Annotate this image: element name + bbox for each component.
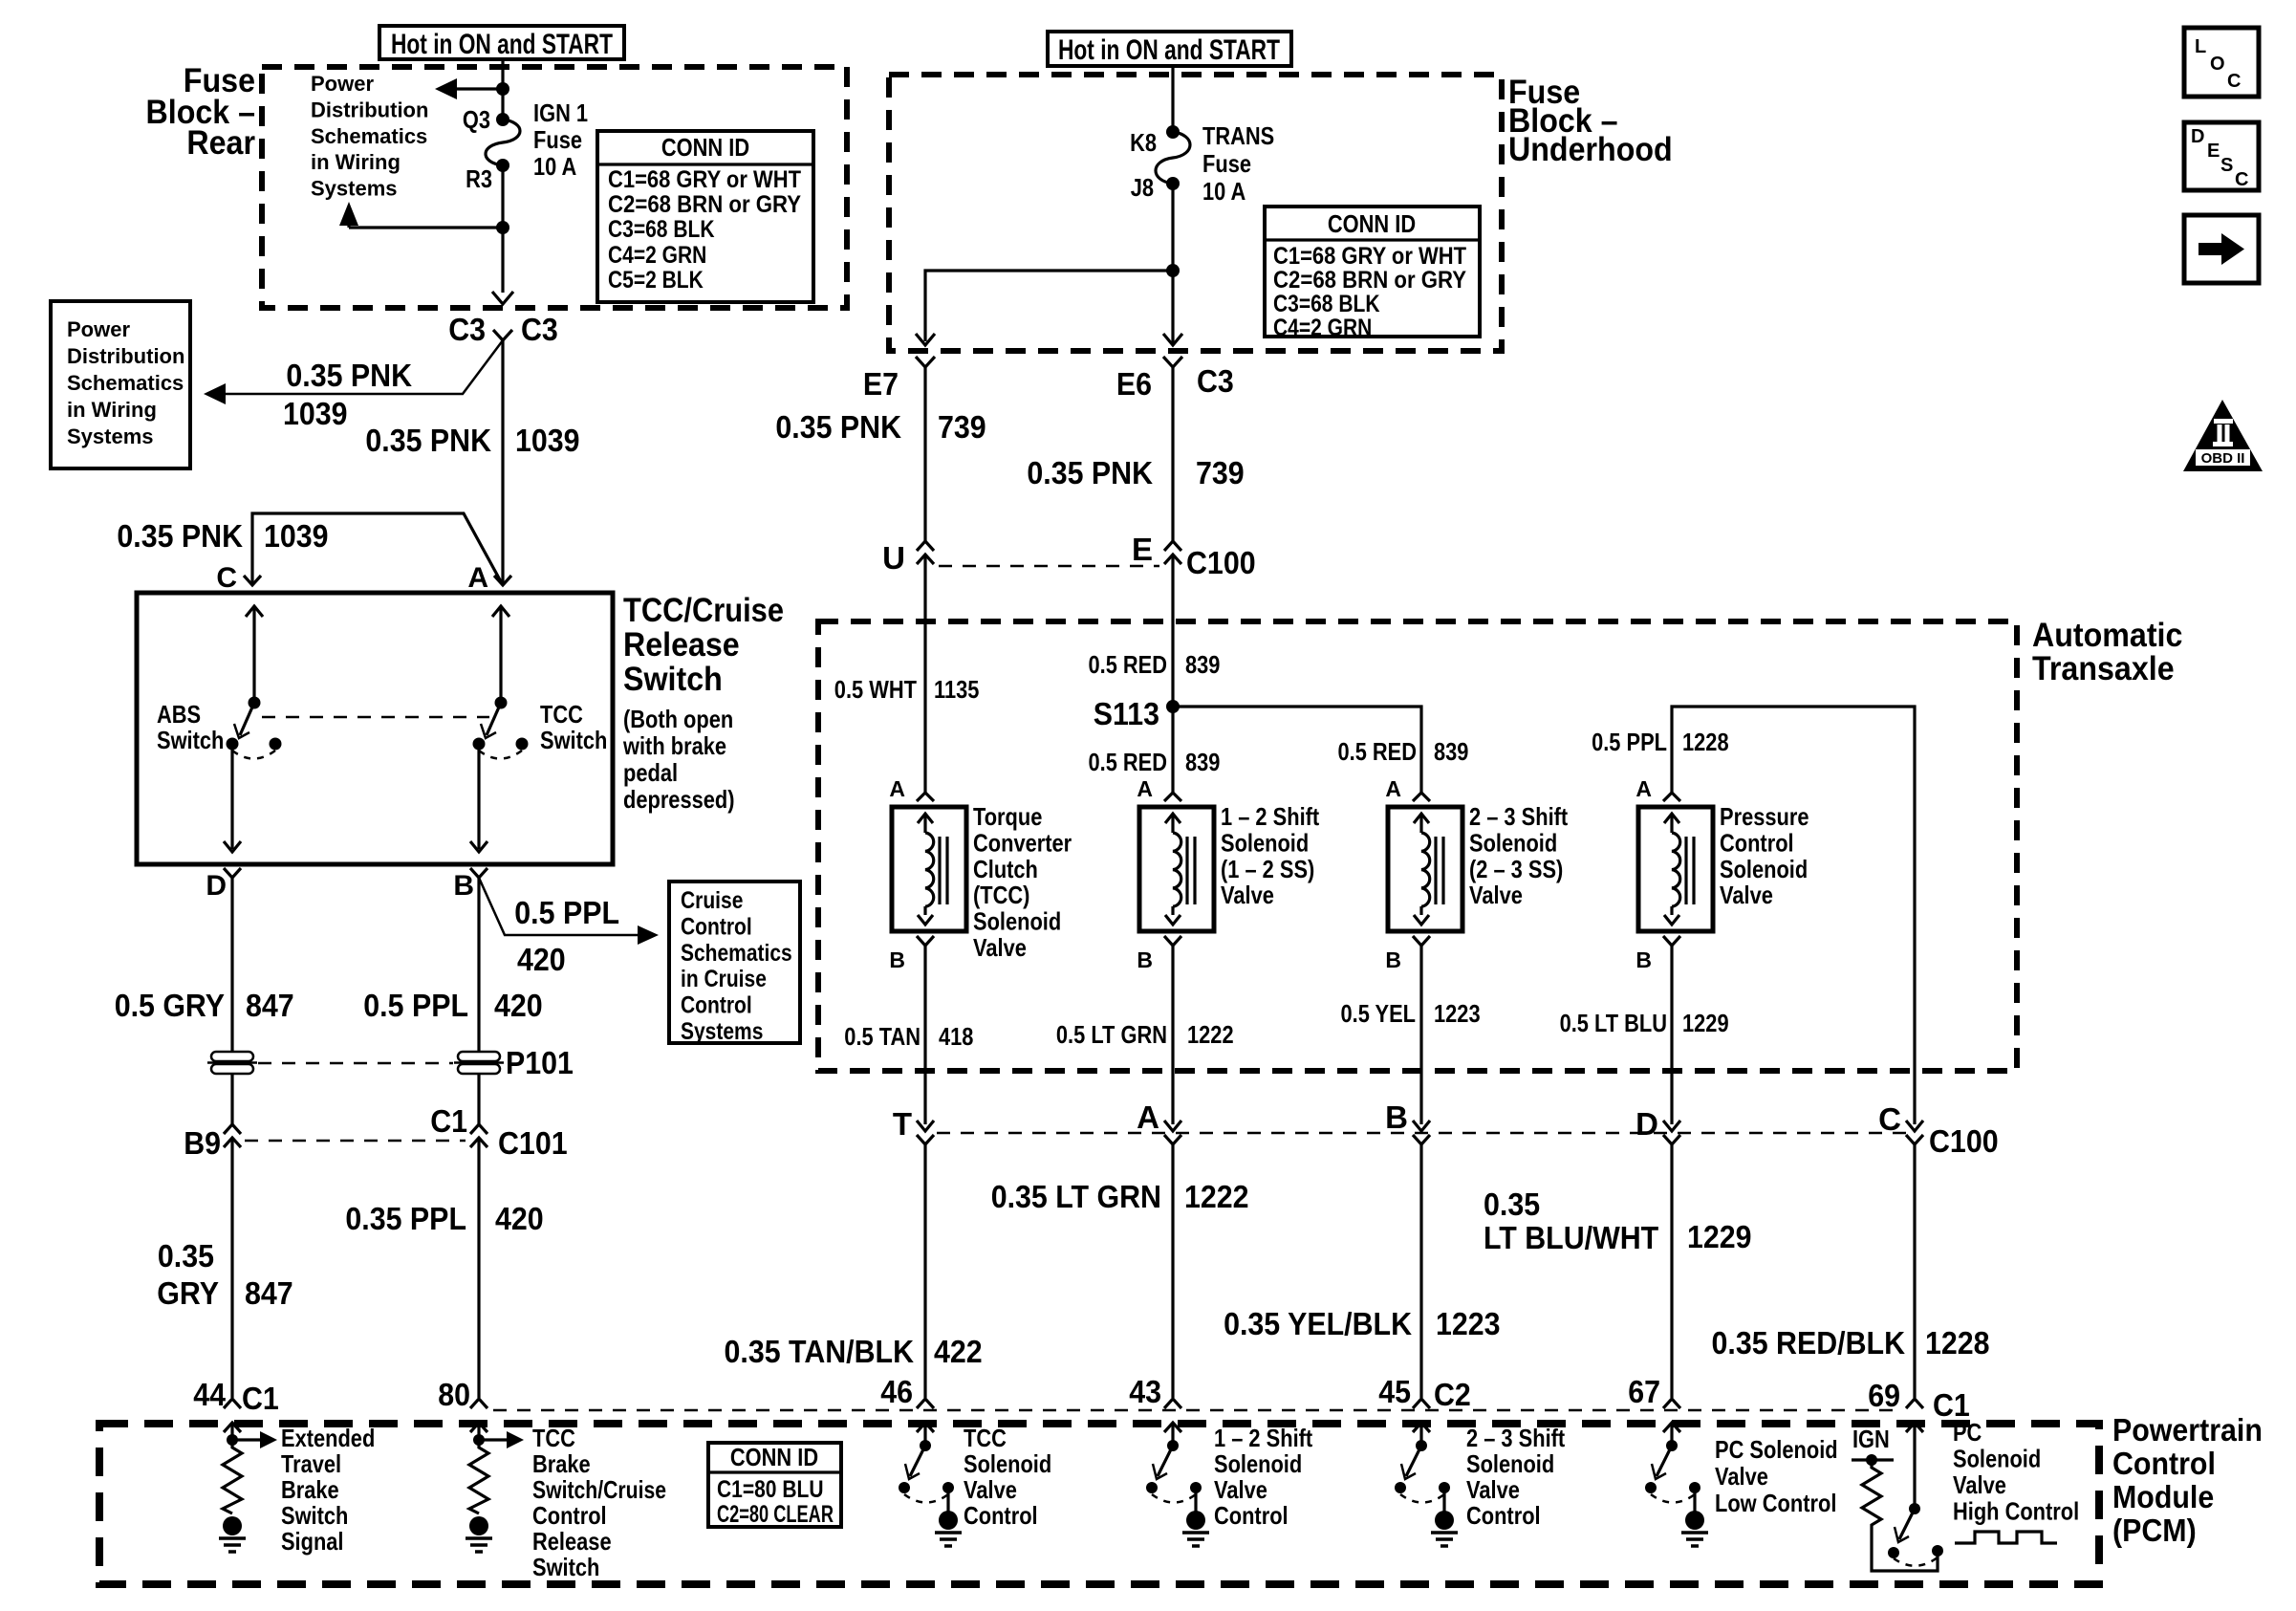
signal tap arrow — [232, 1438, 261, 1441]
svg-text:847: 847 — [245, 1275, 293, 1311]
svg-text:Powertrain: Powertrain — [2112, 1412, 2263, 1448]
switch blade — [1406, 1446, 1421, 1476]
svg-text:C100: C100 — [1929, 1123, 1999, 1159]
ground stem — [1194, 1488, 1197, 1513]
PWM square wave symbol — [1955, 1532, 2057, 1543]
svg-text:Low Control: Low Control — [1715, 1489, 1836, 1517]
svg-text:Schematics: Schematics — [311, 124, 427, 148]
svg-text:(1 – 2 SS): (1 – 2 SS) — [1221, 855, 1314, 883]
svg-text:67: 67 — [1628, 1374, 1660, 1409]
solenoid 1-2 shift — [1139, 807, 1214, 931]
svg-text:Release: Release — [623, 626, 740, 664]
svg-text:418: 418 — [939, 1022, 973, 1051]
svg-text:Release: Release — [532, 1527, 612, 1556]
svg-text:0.35 PPL: 0.35 PPL — [345, 1201, 466, 1236]
connector C100 row (dashed) — [939, 565, 1159, 568]
connector pin A (C100) chevron — [1164, 1135, 1181, 1144]
svg-text:Control: Control — [964, 1501, 1038, 1530]
svg-text:420: 420 — [517, 942, 566, 977]
svg-text:Control: Control — [2112, 1446, 2216, 1481]
svg-text:C3: C3 — [448, 312, 486, 347]
connector pin C (C100) chevron — [1906, 1135, 1923, 1144]
contact (open) — [1645, 1482, 1657, 1493]
svg-text:LT BLU/WHT: LT BLU/WHT — [1484, 1220, 1658, 1255]
svg-text:0.5 TAN: 0.5 TAN — [844, 1022, 921, 1051]
switch blade — [910, 1446, 925, 1476]
svg-text:S113: S113 — [1094, 696, 1159, 731]
svg-text:C3=68 BLK: C3=68 BLK — [1273, 291, 1380, 317]
Fuse Block - Rear enclosure (dashed) — [262, 67, 847, 308]
ground stem — [946, 1488, 949, 1513]
wire 0.35 TAN/BLK 422 — [923, 1144, 926, 1398]
svg-text:Solenoid: Solenoid — [964, 1449, 1051, 1478]
PCM input (TCC brake switch / cruise control release switch) : arrow and pull-down — [470, 1423, 487, 1432]
svg-text:Hot in ON and START: Hot in ON and START — [391, 29, 613, 60]
svg-text:Q3: Q3 — [463, 105, 490, 134]
svg-text:839: 839 — [1185, 650, 1220, 679]
svg-text:Valve: Valve — [1221, 881, 1274, 909]
connector C chevron — [244, 576, 261, 585]
connector pin D (C100) chevron — [1663, 1135, 1680, 1144]
svg-text:Distribution: Distribution — [67, 344, 184, 368]
connector pin A chevron (solenoid TCC) — [917, 793, 934, 801]
svg-text:C: C — [2235, 169, 2248, 190]
svg-text:0.35 LT GRN: 0.35 LT GRN — [991, 1179, 1161, 1214]
wire D down — [230, 878, 233, 1052]
svg-text:U: U — [882, 540, 905, 576]
grommet P101 — [458, 1052, 500, 1061]
svg-text:C3: C3 — [521, 312, 558, 347]
svg-text:depressed): depressed) — [623, 785, 735, 814]
wire branch left inside fuse block — [925, 271, 1173, 341]
junction node — [496, 82, 509, 96]
LOC icon box — [2184, 28, 2259, 97]
svg-text:0.5 RED: 0.5 RED — [1089, 748, 1168, 776]
svg-text:C1: C1 — [430, 1103, 467, 1139]
DESC icon box — [2184, 122, 2259, 190]
svg-text:C4=2 GRN: C4=2 GRN — [1273, 315, 1372, 341]
pivot — [1666, 1440, 1678, 1451]
throw arc — [1152, 1494, 1196, 1503]
svg-text:A: A — [1635, 776, 1652, 801]
PCM driver switch (1-2 shift solenoid valve control) : input arrow — [1164, 1423, 1181, 1432]
svg-text:0.35: 0.35 — [1484, 1186, 1540, 1222]
switch blade — [1158, 1446, 1173, 1476]
svg-text:44: 44 — [193, 1377, 226, 1412]
svg-text:1229: 1229 — [1682, 1009, 1729, 1037]
connector C100 bottom row (dashed) — [937, 1132, 1910, 1135]
wire from fuse down — [1171, 184, 1174, 345]
contact to IGN pull-up — [1932, 1545, 1943, 1557]
svg-text:739: 739 — [1196, 455, 1245, 490]
svg-text:C: C — [2227, 71, 2241, 92]
svg-text:1135: 1135 — [934, 675, 979, 704]
ground (TCC solenoid valve control) — [939, 1511, 958, 1530]
wire 0.35 PPL 420 down to PCM — [477, 1138, 480, 1398]
wire below fuse — [501, 165, 504, 293]
svg-text:C4=2 GRN: C4=2 GRN — [608, 242, 706, 269]
svg-text:Systems: Systems — [681, 1018, 763, 1045]
power feed label box "Hot in ON and START" (rear) — [379, 26, 624, 59]
ground (TCC brake switch / cruise control release switch) — [469, 1516, 488, 1535]
svg-text:0.5 LT GRN: 0.5 LT GRN — [1056, 1020, 1167, 1049]
svg-text:Solenoid: Solenoid — [1214, 1449, 1302, 1478]
wire 0.35 RED/BLK 1228 — [1913, 1144, 1916, 1398]
connector B9 / C101 row (dashed) — [245, 1140, 466, 1143]
svg-text:Valve: Valve — [1466, 1475, 1520, 1504]
svg-text:Distribution: Distribution — [311, 98, 428, 121]
svg-text:Switch: Switch — [281, 1501, 348, 1530]
svg-text:Switch: Switch — [623, 661, 723, 698]
solenoid pressure control — [1638, 807, 1713, 931]
cruise control schematics reference box — [669, 882, 800, 1043]
contact (open) — [1888, 1547, 1899, 1558]
svg-text:847: 847 — [246, 988, 294, 1023]
contact (closed side) — [1689, 1482, 1700, 1493]
svg-text:0.35 PNK: 0.35 PNK — [286, 358, 412, 393]
connector pin T (C100) arrow — [917, 1121, 934, 1131]
pivot — [1416, 1440, 1427, 1451]
wire from hot feed to fuse IGN 1 — [501, 59, 504, 120]
svg-text:Extended: Extended — [281, 1424, 375, 1452]
svg-text:0.5 PPL: 0.5 PPL — [1592, 728, 1667, 756]
wire (main 0.35 PNK 1039) — [501, 340, 504, 585]
wire 0.5 LT BLU 1229 — [1670, 946, 1673, 1124]
svg-text:Control: Control — [681, 992, 752, 1019]
connector pin B (C100) chevron — [1413, 1135, 1430, 1144]
wire branch to terminal C — [252, 513, 503, 585]
ABS switch arm (arrow up) — [246, 606, 263, 617]
svg-text:Pressure: Pressure — [1720, 802, 1809, 831]
svg-text:C1=68 GRY or WHT: C1=68 GRY or WHT — [1273, 243, 1466, 270]
svg-text:Control: Control — [1214, 1501, 1289, 1530]
svg-text:pedal: pedal — [623, 758, 678, 787]
mechanical link (dashed) between switches — [262, 716, 489, 719]
svg-text:1228: 1228 — [1682, 728, 1729, 756]
PCM pin connector chevron — [224, 1399, 241, 1408]
TCC/Cruise Release Switch box — [137, 593, 613, 864]
svg-text:C100: C100 — [1186, 545, 1256, 580]
svg-text:in Wiring: in Wiring — [67, 398, 157, 422]
svg-text:Hot in ON and START: Hot in ON and START — [1058, 34, 1280, 66]
svg-text:420: 420 — [495, 1201, 544, 1236]
ground (1-2 shift solenoid valve control) — [1186, 1511, 1205, 1530]
svg-text:0.35 PNK: 0.35 PNK — [365, 423, 491, 458]
svg-text:0.5 GRY: 0.5 GRY — [115, 988, 225, 1023]
svg-text:Transaxle: Transaxle — [2032, 650, 2175, 687]
CONN ID table (fuse block rear) — [597, 131, 813, 302]
svg-text:O: O — [2210, 54, 2225, 75]
grommet (left pass-through) — [211, 1052, 253, 1061]
throw arc — [1400, 1494, 1444, 1503]
PCM driver switch (PC solenoid valve high control) : input arrow — [1906, 1423, 1923, 1432]
svg-text:E6: E6 — [1116, 366, 1152, 402]
svg-text:TCC: TCC — [964, 1424, 1007, 1452]
svg-text:B9: B9 — [184, 1125, 221, 1161]
svg-text:D: D — [1635, 1106, 1658, 1142]
connector B9 chevrons — [224, 1124, 241, 1134]
connector pin T (C100) chevron — [917, 1135, 934, 1144]
wire 0.5 TAN 418 — [923, 946, 926, 1124]
svg-text:1 – 2 Shift: 1 – 2 Shift — [1221, 802, 1319, 831]
svg-text:B: B — [1635, 947, 1652, 972]
svg-text:0.5 PPL: 0.5 PPL — [363, 988, 468, 1023]
svg-text:Travel: Travel — [281, 1449, 341, 1478]
OBD II symbol — [2183, 400, 2263, 471]
ground (2-3 shift solenoid valve control) — [1435, 1511, 1454, 1530]
svg-text:B: B — [889, 947, 905, 972]
svg-text:TCC/Cruise: TCC/Cruise — [623, 592, 784, 629]
solenoid TCC — [892, 807, 966, 931]
svg-text:0.5 LT BLU: 0.5 LT BLU — [1560, 1009, 1667, 1037]
PCM pin connector chevron — [917, 1399, 934, 1408]
svg-text:C2=80 CLEAR: C2=80 CLEAR — [717, 1501, 834, 1528]
svg-text:Valve: Valve — [964, 1475, 1017, 1504]
connector pin A (C100) arrow — [1164, 1121, 1181, 1131]
svg-text:Control: Control — [532, 1501, 607, 1530]
connector E chevrons (C100) — [1164, 541, 1181, 551]
connector pin A chevron (solenoid 2-3 shift) — [1413, 793, 1430, 801]
power distribution schematics reference box — [51, 301, 190, 468]
svg-text:0.5 YEL: 0.5 YEL — [1341, 999, 1417, 1028]
ground (extended travel brake switch signal) — [223, 1516, 242, 1535]
wire 0.5 PPL 1228 from PCM high control — [1672, 707, 1915, 1124]
svg-text:Schematics: Schematics — [67, 371, 184, 395]
svg-text:0.5 RED: 0.5 RED — [1089, 650, 1168, 679]
svg-text:Systems: Systems — [67, 425, 154, 448]
svg-text:1229: 1229 — [1687, 1219, 1752, 1254]
wire from S113 to 2-3 shift solenoid — [1173, 707, 1421, 793]
wire E6 down to C100 — [1171, 367, 1174, 541]
connector pin D (C100) arrow — [1663, 1121, 1680, 1131]
svg-text:0.5 RED: 0.5 RED — [1338, 737, 1418, 766]
svg-text:in Cruise: in Cruise — [681, 966, 767, 992]
svg-text:OBD II: OBD II — [2201, 450, 2245, 467]
wire from hot feed to TRANS fuse — [1171, 66, 1174, 132]
PCM pin connector chevron — [1906, 1399, 1923, 1408]
svg-text:0.35 YEL/BLK: 0.35 YEL/BLK — [1224, 1306, 1412, 1341]
arrow out of fuse block — [492, 292, 513, 304]
svg-text:Power: Power — [311, 72, 374, 96]
svg-text:Automatic: Automatic — [2032, 617, 2182, 654]
contact (open) — [1146, 1482, 1158, 1493]
wire 0.35 LT BLU/WHT 1229 — [1670, 1144, 1673, 1398]
svg-text:TCC: TCC — [532, 1424, 575, 1452]
svg-text:E: E — [2207, 141, 2220, 162]
connector A chevron — [494, 576, 511, 585]
svg-text:E: E — [1132, 532, 1153, 567]
PCM input (extended travel brake switch signal) : arrow and pull-down — [224, 1423, 241, 1432]
TCC switch contact — [473, 738, 486, 751]
TCC switch arm (arrow up) — [492, 606, 509, 617]
svg-text:C5=2 BLK: C5=2 BLK — [608, 267, 704, 294]
svg-text:0.35 PNK: 0.35 PNK — [775, 409, 901, 445]
wire 0.35 PNK 1039 branch to power distribution — [222, 340, 503, 394]
svg-text:IGN 1: IGN 1 — [533, 98, 588, 127]
svg-text:Power: Power — [67, 317, 130, 341]
svg-text:PC Solenoid: PC Solenoid — [1715, 1435, 1838, 1464]
contact (open) — [899, 1482, 910, 1493]
connector pin A chevron (solenoid pressure control) — [1663, 793, 1680, 801]
svg-text:(Both open: (Both open — [623, 705, 733, 733]
svg-text:C1: C1 — [242, 1381, 279, 1416]
svg-text:420: 420 — [494, 988, 543, 1023]
pivot — [1909, 1503, 1920, 1514]
svg-text:L: L — [2195, 36, 2206, 57]
svg-text:Systems: Systems — [311, 177, 398, 201]
connector pin B chevron (solenoid pressure control) — [1663, 936, 1680, 946]
svg-text:C2=68 BRN or GRY: C2=68 BRN or GRY — [1273, 267, 1466, 294]
wire 0.35 YEL/BLK 1223 — [1419, 1144, 1422, 1398]
connector pin B chevron (solenoid 1-2 shift) — [1164, 936, 1181, 946]
svg-text:A: A — [467, 562, 488, 594]
ABS switch alternate contact — [270, 738, 282, 751]
svg-text:1 – 2 Shift: 1 – 2 Shift — [1214, 1424, 1312, 1452]
svg-text:High Control: High Control — [1953, 1497, 2079, 1526]
svg-text:Brake: Brake — [532, 1449, 591, 1478]
svg-text:2 – 3 Shift: 2 – 3 Shift — [1466, 1424, 1565, 1452]
throw arc — [904, 1494, 948, 1503]
PCM pin connector chevron — [1413, 1399, 1430, 1408]
svg-text:(PCM): (PCM) — [2112, 1513, 2197, 1548]
PCM pin connector row (dashed) — [493, 1409, 1902, 1412]
wire 0.35 GRY 847 down to PCM — [230, 1138, 233, 1398]
wire 0.35 LT GRN 1222 — [1171, 1144, 1174, 1398]
svg-text:10 A: 10 A — [1202, 177, 1245, 206]
svg-text:C1=80 BLU: C1=80 BLU — [717, 1476, 824, 1503]
svg-text:Valve: Valve — [1953, 1470, 2006, 1499]
svg-text:Valve: Valve — [1715, 1462, 1768, 1491]
resistor (extended travel brake switch signal) — [223, 1442, 242, 1513]
solenoid 2-3 shift — [1388, 807, 1462, 931]
svg-text:Signal: Signal — [281, 1527, 344, 1556]
connector pin A chevron (solenoid 1-2 shift) — [1164, 793, 1181, 801]
svg-text:69: 69 — [1868, 1378, 1900, 1413]
svg-text:1039: 1039 — [283, 396, 348, 431]
forward arrow icon box — [2184, 215, 2259, 283]
wire B down — [477, 878, 480, 1052]
TCC switch pivot — [495, 697, 508, 709]
svg-text:0.5 WHT: 0.5 WHT — [834, 675, 917, 704]
svg-text:Solenoid: Solenoid — [1720, 855, 1808, 883]
throw arc — [1651, 1494, 1695, 1503]
svg-text:A: A — [1137, 776, 1153, 801]
svg-text:Valve: Valve — [973, 933, 1027, 962]
svg-text:1222: 1222 — [1187, 1020, 1234, 1049]
connector B chevron — [470, 868, 487, 878]
ABS switch blade — [240, 703, 254, 735]
svg-text:1228: 1228 — [1925, 1325, 1990, 1361]
connector D chevron — [224, 868, 241, 878]
svg-text:Brake: Brake — [281, 1475, 339, 1504]
svg-text:1039: 1039 — [515, 423, 580, 458]
TCC switch throw arc — [479, 751, 522, 759]
svg-text:Switch/Cruise: Switch/Cruise — [532, 1475, 666, 1504]
svg-text:Control: Control — [1466, 1501, 1541, 1530]
contact (open) — [1395, 1482, 1406, 1493]
svg-text:D: D — [2191, 126, 2204, 147]
wire 0.5 LT GRN 1222 — [1171, 946, 1174, 1124]
ABS switch pivot — [249, 697, 261, 709]
svg-text:S: S — [2220, 155, 2233, 176]
svg-text:839: 839 — [1185, 748, 1220, 776]
svg-text:CONN ID: CONN ID — [661, 133, 749, 162]
svg-text:Valve: Valve — [1469, 881, 1523, 909]
grommet dashed link — [258, 1062, 453, 1065]
fuse TRANS 10 A (K8-J8) — [1166, 125, 1180, 139]
throw arc — [1894, 1557, 1938, 1566]
svg-text:P101: P101 — [506, 1045, 574, 1080]
wire to power distribution (up arrow) — [349, 226, 503, 229]
junction — [227, 1434, 238, 1446]
connector pin C (C100) arrow — [1906, 1121, 1923, 1131]
PCM driver switch (TCC solenoid valve control) : input arrow — [917, 1423, 934, 1432]
svg-text:B: B — [1385, 947, 1401, 972]
svg-text:Converter: Converter — [973, 828, 1072, 857]
svg-text:C3=68 BLK: C3=68 BLK — [608, 216, 715, 243]
svg-text:TRANS: TRANS — [1202, 121, 1274, 150]
svg-text:46: 46 — [880, 1374, 913, 1409]
svg-text:1223: 1223 — [1434, 999, 1481, 1028]
switch blade — [1657, 1446, 1672, 1476]
svg-text:Switch: Switch — [540, 726, 607, 754]
splice S113 — [1166, 700, 1180, 713]
arrow at fuse block exit (left) — [916, 334, 935, 345]
Powertrain Control Module enclosure (dashed) — [99, 1424, 2099, 1584]
svg-text:Fuse: Fuse — [533, 125, 582, 154]
svg-text:B: B — [1137, 947, 1153, 972]
switch blade — [1899, 1509, 1915, 1539]
wire below grommet (right) — [477, 1074, 480, 1124]
svg-text:0.5 PPL: 0.5 PPL — [514, 895, 619, 930]
junction — [473, 1434, 485, 1446]
svg-text:C3: C3 — [1197, 363, 1234, 399]
svg-text:Solenoid: Solenoid — [1466, 1449, 1554, 1478]
svg-text:Clutch: Clutch — [973, 855, 1038, 883]
svg-text:Fuse: Fuse — [1202, 149, 1251, 178]
junction node — [1166, 264, 1180, 277]
wire 0.5 YEL 1223 — [1419, 946, 1422, 1124]
svg-text:(2 – 3 SS): (2 – 3 SS) — [1469, 855, 1563, 883]
svg-text:422: 422 — [934, 1334, 983, 1369]
wire E7 down to C100 — [923, 367, 926, 541]
svg-text:2 – 3 Shift: 2 – 3 Shift — [1469, 802, 1568, 831]
PCM pin connector chevron — [1663, 1399, 1680, 1408]
wire 0.5 PPL 420 branch to cruise control — [479, 878, 640, 935]
svg-text:C: C — [1878, 1101, 1901, 1137]
resistor (TCC brake switch / cruise control release switch) — [469, 1442, 488, 1513]
IGN pull-up resistor — [1862, 1460, 1881, 1531]
svg-text:TCC: TCC — [540, 700, 583, 729]
svg-text:0.35 PNK: 0.35 PNK — [117, 518, 243, 554]
svg-text:A: A — [889, 776, 905, 801]
wire arrow to power distribution (left) — [453, 87, 503, 90]
PCM pin connector chevron — [470, 1399, 487, 1408]
svg-text:CONN ID: CONN ID — [730, 1443, 818, 1471]
contact (closed side) — [1439, 1482, 1450, 1493]
svg-text:PC: PC — [1953, 1418, 1982, 1447]
wire from resistor to switch contact — [1872, 1531, 1938, 1571]
connector pin B chevron (solenoid TCC) — [917, 936, 934, 946]
svg-text:GRY: GRY — [157, 1275, 219, 1311]
svg-text:Solenoid: Solenoid — [973, 907, 1061, 936]
svg-text:IGN: IGN — [1852, 1425, 1890, 1453]
connector C3 (fuse block rear) — [493, 330, 512, 340]
svg-text:Rear: Rear — [186, 124, 255, 162]
svg-text:J8: J8 — [1131, 173, 1154, 202]
svg-text:Torque: Torque — [973, 802, 1042, 831]
connector pin B chevron (solenoid 2-3 shift) — [1413, 936, 1430, 946]
